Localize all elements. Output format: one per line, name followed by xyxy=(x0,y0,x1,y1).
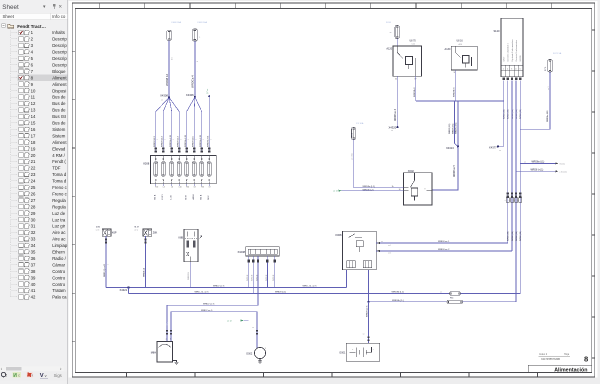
svg-text:K8B: K8B xyxy=(178,236,183,239)
svg-text:Radio /: Radio / xyxy=(52,256,66,261)
svg-text:Alimentación: Alimentación xyxy=(554,368,587,374)
svg-text:WRD8 L13: WRD8 L13 xyxy=(154,136,156,147)
G002 feeder marks xyxy=(252,327,258,335)
svg-text:Toma d: Toma d xyxy=(52,179,67,184)
wire X4313 to X002 xyxy=(432,146,458,190)
svg-text:Inhalts: Inhalts xyxy=(52,30,65,35)
svg-text:1: 1 xyxy=(173,139,175,140)
svg-text:WRD8a L15: WRD8a L15 xyxy=(185,134,187,147)
junction X4377 xyxy=(489,145,501,152)
svg-text:1: 1 xyxy=(157,139,159,140)
svg-text:ue 2: ue 2 xyxy=(388,253,391,255)
svg-text:s: s xyxy=(5,374,7,378)
net labels on fuse box feeders xyxy=(154,134,212,147)
svg-text:9: 9 xyxy=(425,188,426,190)
bus WRD8 (L1) xyxy=(129,292,450,294)
wire bus A120-A130-S120 xyxy=(416,100,504,102)
svg-text:Index 2: Index 2 xyxy=(539,353,548,356)
svg-text:F24: F24 xyxy=(186,187,189,189)
fuse holder Z8K xyxy=(134,227,157,237)
frame zone ticks left xyxy=(72,51,75,341)
svg-text:Regula: Regula xyxy=(52,204,66,209)
svg-text:Ethern: Ethern xyxy=(52,250,65,255)
svg-text:Freno c: Freno c xyxy=(52,185,67,190)
svg-text:WRD8b (L1): WRD8b (L1) xyxy=(392,292,404,294)
svg-text:21: 21 xyxy=(31,159,36,164)
wire F010 to A120 xyxy=(396,39,398,47)
svg-text:1: 1 xyxy=(108,264,110,265)
svg-text:WRD8 (2): WRD8 (2) xyxy=(143,267,145,277)
bus WRD8 ue 5 (upper) xyxy=(106,286,346,288)
svg-text:Freno c: Freno c xyxy=(52,191,67,196)
svg-text:Pala ca: Pala ca xyxy=(52,295,67,300)
wire F009 to X4306 xyxy=(194,41,196,97)
svg-text:v: v xyxy=(45,373,47,378)
tree rows 1-42 xyxy=(11,28,68,300)
net labels WRD8 (2U) xyxy=(449,122,457,134)
svg-text:L10: L10 xyxy=(179,187,182,189)
svg-text:8: 8 xyxy=(584,355,588,364)
svg-text:3b: 3b xyxy=(392,186,394,188)
fuse box X008 xyxy=(143,156,216,184)
wire branch G (L1) xyxy=(520,162,565,166)
svg-text:WRD8 ue 2: WRD8 ue 2 xyxy=(438,249,450,251)
svg-text:WRD8 ue 4: WRD8 ue 4 xyxy=(395,108,397,121)
svg-text:34: 34 xyxy=(31,243,36,248)
fuse F009 (right feed) xyxy=(193,21,208,41)
svg-text:30: 30 xyxy=(31,217,36,222)
svg-text:Contro: Contro xyxy=(52,275,66,280)
svg-text:1: 1 xyxy=(165,139,167,140)
svg-text:U8 16: U8 16 xyxy=(457,41,464,43)
svg-text:12: 12 xyxy=(31,101,36,106)
wire K8B to bus xyxy=(189,262,191,288)
svg-text:X4321: X4321 xyxy=(120,288,128,292)
svg-text:WRD8 ue 5: WRD8 ue 5 xyxy=(366,305,368,317)
svg-text:WRD8a (L1): WRD8a (L1) xyxy=(532,162,545,164)
svg-text:U8 17: U8 17 xyxy=(503,57,505,62)
svg-text:X4377: X4377 xyxy=(489,146,497,150)
svg-text:G (L1): G (L1) xyxy=(559,163,565,165)
svg-text:Fendt (: Fendt ( xyxy=(52,159,66,164)
svg-text:Cámar: Cámar xyxy=(52,262,65,267)
svg-text:X1008: X1008 xyxy=(237,250,245,254)
panel horizontal scrollbar xyxy=(0,366,64,371)
svg-text:Bus ISI: Bus ISI xyxy=(52,114,66,119)
svg-text:Toma d: Toma d xyxy=(52,172,67,177)
wire K008 pin left to bus xyxy=(345,270,347,288)
tree root: Fendt Tract xyxy=(2,24,6,28)
svg-text:Sheet: Sheet xyxy=(2,4,19,11)
svg-text:27: 27 xyxy=(31,198,36,203)
wires X1008 to buses xyxy=(248,263,250,288)
bundle net labels lower xyxy=(508,231,522,241)
wire K008 pin right to G001 xyxy=(368,270,370,302)
wire A120 pin30 to X4320 xyxy=(396,76,398,127)
bus WRD2 ue 5 (to M8H a / X1008) xyxy=(167,304,258,342)
svg-text:F22: F22 xyxy=(155,187,158,189)
svg-text:30: 30 xyxy=(399,189,401,191)
svg-text:4 RM /: 4 RM / xyxy=(52,153,65,158)
svg-text:31: 31 xyxy=(31,224,36,229)
motor M8H xyxy=(151,342,173,363)
svg-text:WRD8 (2U): WRD8 (2U) xyxy=(508,231,510,241)
svg-text:Luz de: Luz de xyxy=(52,211,66,216)
svg-text:18: 18 xyxy=(31,140,36,145)
node Q7 stub xyxy=(207,89,210,97)
svg-text:Contro: Contro xyxy=(52,269,66,274)
svg-text:Z8K: Z8K xyxy=(153,231,158,234)
svg-text:Bus de: Bus de xyxy=(52,101,66,106)
wire ref arrow to X002 pin2 xyxy=(333,190,403,193)
svg-text:Bus de: Bus de xyxy=(52,95,66,100)
svg-text:X002: X002 xyxy=(408,169,415,173)
svg-text:WRD8 16: WRD8 16 xyxy=(165,73,169,86)
svg-text:F009 50A: F009 50A xyxy=(198,21,208,24)
frame zone ticks right xyxy=(592,30,595,358)
generator G002 xyxy=(246,347,266,358)
fuse F34 on lower wire xyxy=(447,300,463,303)
svg-text:2: 2 xyxy=(507,68,508,70)
svg-text:WRD8b 6: WRD8b 6 xyxy=(414,87,416,97)
svg-text:26: 26 xyxy=(31,191,36,196)
svg-text:F25: F25 xyxy=(201,187,204,189)
svg-text:WRD8a G5: WRD8a G5 xyxy=(208,135,210,147)
svg-text:Luz tra: Luz tra xyxy=(52,217,66,222)
ground at G002 xyxy=(258,359,262,364)
svg-text:Tratam: Tratam xyxy=(52,288,66,293)
svg-text:39: 39 xyxy=(31,275,36,280)
svg-text:ue: ue xyxy=(499,150,501,152)
svg-text:L6: L6 xyxy=(171,187,173,189)
net ref arrow ue12 (G002 feed) xyxy=(227,319,249,322)
svg-text:10: 10 xyxy=(31,88,36,93)
svg-text:ue: ue xyxy=(391,130,393,132)
svg-text:36: 36 xyxy=(31,256,36,261)
relay A130 xyxy=(445,41,478,75)
frame zone ticks bottom xyxy=(127,373,538,378)
svg-text:28: 28 xyxy=(31,204,36,209)
panel tabs xyxy=(0,371,68,380)
svg-text:Limpiap: Limpiap xyxy=(52,243,68,248)
wire F3 to X002 xyxy=(354,140,404,188)
svg-text:b: b xyxy=(170,339,171,341)
junction X4308 xyxy=(160,94,170,102)
connector row C4308 on bundle xyxy=(505,193,522,203)
svg-text:F071 5A: F071 5A xyxy=(553,52,562,55)
svg-text:ue 1: ue 1 xyxy=(388,245,391,247)
svg-text:WRD8 (L2): WRD8 (L2) xyxy=(363,189,374,191)
svg-text:WRD8 (2U): WRD8 (2U) xyxy=(512,231,514,241)
svg-text:22: 22 xyxy=(31,166,36,171)
svg-text:WRD_CL ue 5: WRD_CL ue 5 xyxy=(195,292,210,294)
svg-text:Info co: Info co xyxy=(52,14,66,19)
svg-text:ue: ue xyxy=(524,162,526,164)
svg-text:19: 19 xyxy=(31,146,36,151)
svg-text:WRDCa 4: WRDCa 4 xyxy=(191,75,195,88)
svg-text:Bus de: Bus de xyxy=(52,108,66,113)
svg-text:24: 24 xyxy=(31,179,36,184)
svg-text:29: 29 xyxy=(31,211,36,216)
wire S120 pin2 down xyxy=(507,81,509,243)
wire G001 feed / fuse wire lower xyxy=(368,300,448,303)
svg-text:a: a xyxy=(166,339,167,341)
svg-text:A130: A130 xyxy=(445,48,451,51)
M8H feeder marks xyxy=(166,322,172,341)
svg-text:32: 32 xyxy=(31,230,36,235)
connector block S120 xyxy=(493,18,523,76)
svg-text:ue: ue xyxy=(390,32,392,34)
wire S120 pin4 down xyxy=(515,81,517,302)
svg-text:ue b: ue b xyxy=(96,229,100,231)
svg-text:15: 15 xyxy=(31,121,36,126)
svg-text:WRD8 (L1): WRD8 (L1) xyxy=(275,292,286,294)
svg-text:ue: ue xyxy=(161,99,163,101)
wire Z8K to bus xyxy=(145,236,147,287)
fuse F33 on bus xyxy=(450,292,461,295)
svg-text:WRD8 ue 5: WRD8 ue 5 xyxy=(454,164,456,177)
svg-text:K008: K008 xyxy=(335,233,342,237)
svg-text:Bus de: Bus de xyxy=(52,121,66,126)
wire fuse F34 to bundle xyxy=(463,301,517,303)
svg-text:35: 35 xyxy=(31,250,36,255)
svg-text:Aire ac: Aire ac xyxy=(52,237,66,242)
svg-text:WRD8b 6: WRD8b 6 xyxy=(453,87,455,97)
X1008 pin stubs xyxy=(248,256,276,263)
svg-text:17: 17 xyxy=(31,133,36,138)
wire S120 pin1 to X4377 xyxy=(498,81,504,147)
svg-text:42: 42 xyxy=(31,295,36,300)
svg-text:X4320: X4320 xyxy=(389,126,397,130)
svg-text:ue: ue xyxy=(440,292,442,294)
svg-text:WRD8 L15: WRD8 L15 xyxy=(193,136,195,147)
svg-text:1: 1 xyxy=(196,139,198,140)
svg-text:X4313: X4313 xyxy=(446,146,454,150)
wire A120 pin87 down xyxy=(415,76,417,101)
fuse holder K6P xyxy=(96,227,117,237)
svg-text:L9: L9 xyxy=(209,187,211,189)
fan-out wires X4306 to fuse box xyxy=(187,97,202,151)
svg-text:WRD B: WRD B xyxy=(273,274,275,281)
switch K8B xyxy=(178,229,202,262)
svg-text:Bloque: Bloque xyxy=(52,69,66,74)
svg-text:WRD8 ue 1: WRD8 ue 1 xyxy=(438,241,450,243)
svg-text:G001: G001 xyxy=(339,352,346,355)
wire S120 pin3 down xyxy=(511,81,513,251)
svg-text:Descrip: Descrip xyxy=(52,37,67,42)
svg-text:WRD8 (2U): WRD8 (2U) xyxy=(449,123,451,134)
svg-text:WRD (2) ue B: WRD (2) ue B xyxy=(104,263,106,277)
X1008 wire labels xyxy=(247,274,275,281)
svg-text:WRD8 (2U): WRD8 (2U) xyxy=(520,231,522,241)
svg-text:WRD8a L15: WRD8a L15 xyxy=(200,134,202,147)
frame zone ticks top xyxy=(100,3,552,9)
junction X4313 xyxy=(446,145,459,150)
relay K008 xyxy=(335,231,376,270)
battery G001 xyxy=(339,343,380,361)
connector marks below S120 xyxy=(502,78,521,81)
svg-text:Descrip: Descrip xyxy=(52,56,67,61)
svg-text:A8 B1: A8 B1 xyxy=(192,193,195,199)
svg-text:Q7 ue: Q7 ue xyxy=(207,89,209,94)
svg-text:Elevad: Elevad xyxy=(52,146,66,151)
svg-text:38: 38 xyxy=(31,269,36,274)
svg-text:X008: X008 xyxy=(143,161,150,165)
svg-text:F3 10A: F3 10A xyxy=(356,122,364,125)
svg-text:×: × xyxy=(59,5,63,11)
junction X4321 xyxy=(120,286,130,291)
svg-text:ue: ue xyxy=(381,241,383,243)
svg-text:3: 3 xyxy=(511,68,512,70)
svg-text:5: 5 xyxy=(520,68,521,70)
interface X002 xyxy=(404,169,433,205)
svg-text:40: 40 xyxy=(31,282,36,287)
svg-text:11: 11 xyxy=(31,95,36,100)
svg-text:WRD B: WRD B xyxy=(256,274,258,281)
wire F008 to X4308 xyxy=(168,40,170,97)
svg-text:1: 1 xyxy=(513,200,515,201)
svg-text:Conexión a batería 2 1: Conexión a batería 2 1 xyxy=(507,43,510,61)
fuse F008 (left feed) xyxy=(167,21,182,40)
svg-text:TDF: TDF xyxy=(52,166,61,171)
wire F071 to bundle xyxy=(520,72,550,129)
connector X1008 xyxy=(237,247,279,256)
svg-text:WRD8 (2U): WRD8 (2U) xyxy=(452,123,454,134)
svg-text:ue 1: ue 1 xyxy=(548,87,550,91)
connector marks above X008 xyxy=(155,148,211,153)
svg-text:37: 37 xyxy=(31,262,36,267)
sheet navigator panel xyxy=(0,0,68,384)
svg-text:1: 1 xyxy=(211,139,213,140)
svg-text:F008 30A: F008 30A xyxy=(172,21,182,24)
svg-text:Fija borde G ral a maniobra: Fija borde G ral a maniobra xyxy=(512,40,514,62)
svg-text:F010: F010 xyxy=(386,22,392,24)
svg-text:ue 2: ue 2 xyxy=(167,322,169,326)
svg-text:Descrip: Descrip xyxy=(52,43,67,48)
wire S120 pin5 down xyxy=(519,81,521,294)
svg-text:И: И xyxy=(13,373,17,379)
svg-text:Luz gir: Luz gir xyxy=(52,224,65,229)
svg-text:Sistem: Sistem xyxy=(52,127,66,132)
svg-text:1: 1 xyxy=(199,37,200,39)
svg-text:WRD2 ue 5: WRD2 ue 5 xyxy=(213,286,225,288)
svg-text:c: c xyxy=(18,374,20,378)
svg-text:ue: ue xyxy=(252,327,254,329)
wire fuse F33 to bundle xyxy=(461,293,521,295)
svg-text:3: 3 xyxy=(265,348,266,350)
svg-text:23: 23 xyxy=(31,172,36,177)
fuse F010 above A120 xyxy=(386,22,399,38)
X008 bottom pin labels xyxy=(155,184,210,189)
svg-text:Regula: Regula xyxy=(52,198,66,203)
svg-text:WRD8 L13: WRD8 L13 xyxy=(162,136,164,147)
junction X4306 xyxy=(186,93,196,98)
svg-text:A120: A120 xyxy=(386,48,392,51)
fan-out wires X4308 to fuse box xyxy=(156,98,179,151)
fuse F071 (right) xyxy=(545,52,562,72)
wire A130 pin to bus xyxy=(454,70,456,101)
svg-text:WRD8a L15: WRD8a L15 xyxy=(170,134,172,147)
svg-text:G002: G002 xyxy=(246,352,253,355)
svg-text:41: 41 xyxy=(31,288,36,293)
svg-text:WRD8 L13: WRD8 L13 xyxy=(178,136,180,147)
wire K008 coil feed 1 xyxy=(376,241,508,247)
svg-text:WRD8 B: WRD8 B xyxy=(188,272,190,280)
svg-text:WRD8 (+L1): WRD8 (+L1) xyxy=(531,170,544,172)
S120 output net labels xyxy=(503,109,522,119)
svg-text:ue 12: ue 12 xyxy=(333,191,338,193)
svg-text:13: 13 xyxy=(31,108,36,113)
stub X4321 to lower bus xyxy=(128,288,130,294)
svg-text:Corriente G ral a maniobra: Corriente G ral a maniobra xyxy=(515,40,518,61)
svg-text:1: 1 xyxy=(203,139,205,140)
svg-text:X4306: X4306 xyxy=(186,93,194,97)
svg-text:L8: L8 xyxy=(194,187,196,189)
svg-text:ue 1 W5: ue 1 W5 xyxy=(352,153,354,160)
svg-text:Aliment: Aliment xyxy=(52,140,67,145)
svg-text:Descrip: Descrip xyxy=(52,50,67,55)
svg-text:16: 16 xyxy=(31,127,36,132)
svg-text:WRD8a (L1): WRD8a (L1) xyxy=(363,186,375,188)
svg-text:33: 33 xyxy=(31,237,36,242)
svg-text:Disposi: Disposi xyxy=(52,88,66,93)
svg-text:WRD B: WRD B xyxy=(252,274,254,281)
svg-text:L1 B: L1 B xyxy=(170,195,172,200)
wire Q7 to X008 xyxy=(208,96,210,150)
wire K6P to bus xyxy=(105,236,107,287)
svg-text:K10 5: K10 5 xyxy=(162,193,164,199)
svg-text:ue 12: ue 12 xyxy=(227,320,232,322)
svg-text:1: 1 xyxy=(188,139,190,140)
svg-text:WRD_CL ue 5: WRD_CL ue 5 xyxy=(303,286,318,288)
svg-text:M8H: M8H xyxy=(151,351,156,354)
svg-text:Sigs: Sigs xyxy=(54,373,62,378)
svg-text:1: 1 xyxy=(503,68,504,70)
svg-text:WRD2 ue 5: WRD2 ue 5 xyxy=(201,310,213,312)
svg-text:30: 30 xyxy=(395,79,397,81)
svg-text:M4 B: M4 B xyxy=(154,194,156,199)
svg-text:14: 14 xyxy=(31,114,36,119)
svg-text:Hoja: Hoja xyxy=(564,353,570,356)
G001 connector marks xyxy=(368,302,370,344)
svg-text:M4 B: M4 B xyxy=(200,194,202,199)
svg-text:WRD B: WRD B xyxy=(266,274,268,281)
svg-text:+15 (L1): +15 (L1) xyxy=(559,171,567,173)
wire pair bus to X4313 xyxy=(454,101,456,144)
svg-text:25: 25 xyxy=(31,185,36,190)
svg-text:Aliment: Aliment xyxy=(52,75,67,80)
wire branch +15 (L1) xyxy=(516,170,567,174)
wire K008 coil feed 2 xyxy=(376,249,512,255)
svg-text:Sistem: Sistem xyxy=(52,133,66,138)
svg-text:Aliment: Aliment xyxy=(52,82,67,87)
X008 output net labels xyxy=(154,193,209,199)
bus WRD2 ue 5 (to M8H b / G002) xyxy=(171,310,257,348)
svg-text:WRD B: WRD B xyxy=(247,274,249,281)
svg-text:Contro: Contro xyxy=(52,282,66,287)
svg-text:K6P: K6P xyxy=(112,231,117,234)
svg-text:20: 20 xyxy=(31,153,36,158)
ground at M8H xyxy=(173,361,179,365)
svg-text:U8 30S: U8 30S xyxy=(520,55,522,62)
svg-text:ue: ue xyxy=(363,334,365,336)
svg-text:Sheet: Sheet xyxy=(3,14,15,19)
svg-text:4: 4 xyxy=(515,68,516,70)
svg-text:F7 1: F7 1 xyxy=(545,66,547,71)
title block xyxy=(528,364,592,366)
svg-text:WRD2 ue 5: WRD2 ue 5 xyxy=(203,304,215,306)
svg-text:X447P3557630B: X447P3557630B xyxy=(541,358,560,361)
